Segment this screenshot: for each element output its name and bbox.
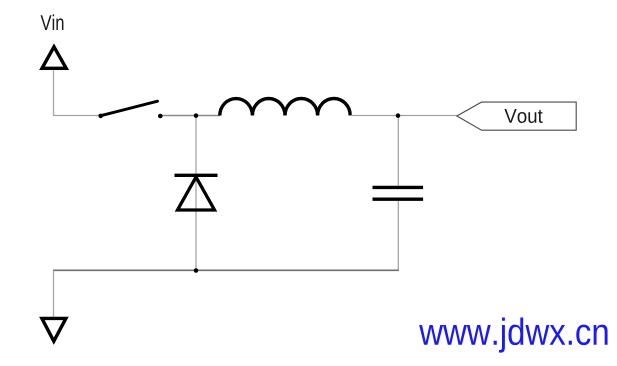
- ground port symbol: [42, 318, 66, 341]
- wire ground stem: [53, 271, 55, 318]
- wire top left: [53, 115, 101, 117]
- node diode-ground junction: [194, 268, 199, 273]
- wire diode branch vertical: [195, 116, 197, 271]
- watermark www.jdwx.cn: [419, 318, 607, 353]
- label Vin: [41, 14, 64, 30]
- switch S1 contact dot: [158, 114, 163, 119]
- wire switch to inductor: [160, 115, 220, 117]
- switch S1 blade: [101, 101, 158, 116]
- wire inductor to Vout: [350, 115, 457, 117]
- wire Vin stem: [53, 70, 55, 116]
- capacitor C1: [373, 187, 424, 199]
- switch S1 pivot dot: [98, 114, 103, 119]
- port tag Vout: [457, 102, 576, 130]
- wire capacitor branch upper: [397, 116, 399, 186]
- inductor L1: [220, 98, 350, 115]
- node inductor-capacitor junction: [396, 113, 401, 118]
- wire bottom rail: [53, 269, 399, 271]
- port symbol Vin (input triangle): [42, 47, 66, 69]
- node switch-diode junction: [194, 113, 199, 118]
- diode D1: [175, 175, 218, 210]
- wire capacitor branch lower: [397, 201, 399, 271]
